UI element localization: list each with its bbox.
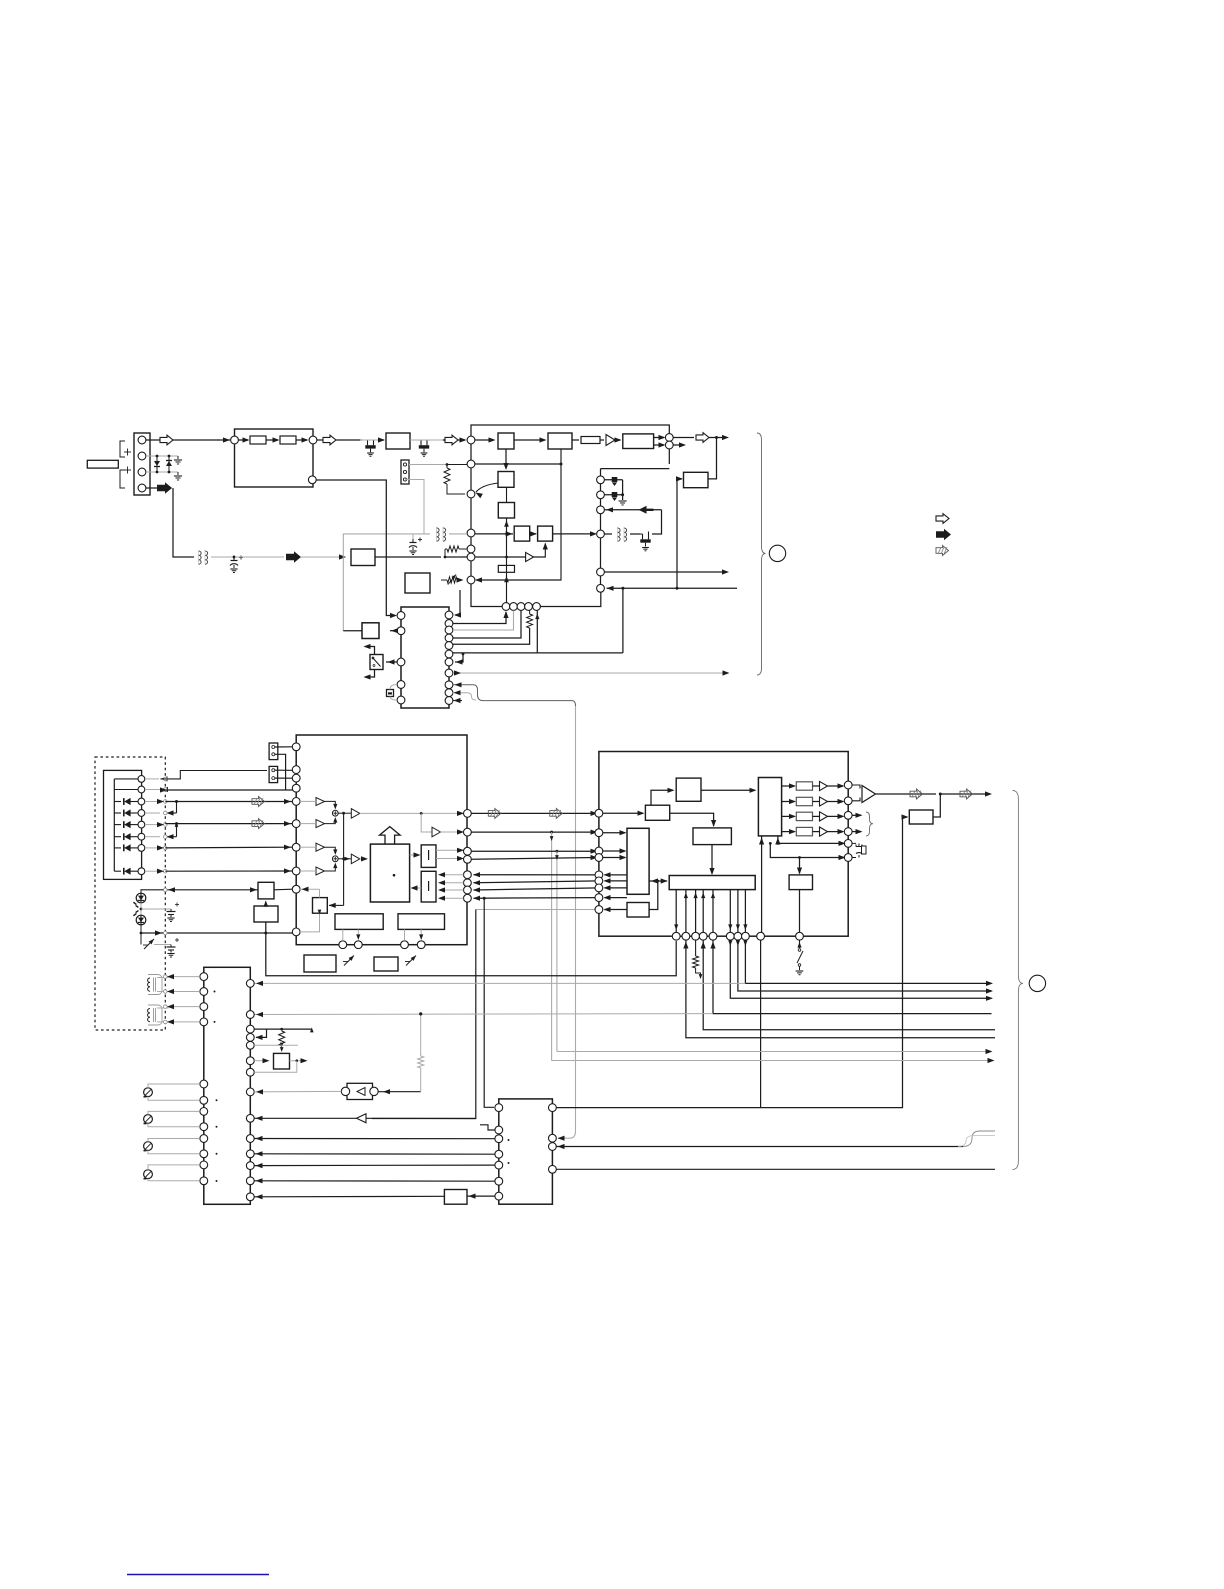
bracket ticks at CN101 [120, 441, 125, 457]
U301 bottom pin 685 [682, 932, 690, 940]
row 890 gap [474, 888, 600, 890]
node row606 e [533, 603, 541, 611]
wire ic1r 685 scurve [454, 685, 576, 706]
wire B16 right [670, 813, 714, 826]
legend hatched arrow [936, 546, 949, 556]
U301 left pin 813 [595, 809, 603, 817]
block B6 servo [351, 549, 375, 566]
block B7 [684, 472, 709, 487]
node row606 c [517, 603, 525, 611]
connector CN101 (optical block) [134, 433, 150, 495]
wire U105 out1 [654, 437, 664, 439]
wire BX2 to BX1 [265, 902, 267, 907]
row 851 gap [471, 850, 596, 852]
node bus 580 [467, 576, 475, 584]
IC101 left pin 662 [397, 658, 405, 666]
wire jog resistor [444, 549, 446, 557]
node row606 b [510, 603, 518, 611]
transistor Q101 [367, 440, 369, 445]
U301 left pin 874 [595, 871, 603, 879]
U201 left pin 801 [292, 798, 300, 806]
CN401 left pin 1138 [200, 1135, 208, 1143]
wire R103 to row494 [447, 484, 465, 494]
wire boxA [390, 630, 397, 632]
IC101 right pin 673 [445, 669, 453, 677]
res box out3 [796, 812, 812, 820]
B21 stub 686 [685, 890, 687, 933]
IC101 left pin 615 [397, 612, 405, 620]
buffer tri T2 [526, 552, 534, 561]
CN401 left pin 991 [200, 988, 208, 996]
wire row494 diode [604, 494, 622, 496]
mic M2 wires [148, 1111, 200, 1114]
IC101 right pin 693 [445, 689, 453, 697]
block B11 [335, 914, 383, 930]
CN401 right pin 983 [246, 980, 254, 988]
glyph F2 [428, 881, 430, 891]
U401 dots [508, 1139, 510, 1141]
U401 left pin 1130 [495, 1126, 503, 1134]
long wire x902 [552, 817, 902, 1108]
diode D102 [168, 456, 170, 472]
mech pin 813 [138, 810, 145, 817]
wire U101 to Q101 [336, 439, 362, 441]
IC101 left pin 700 [397, 696, 405, 704]
signal arrow mid [445, 435, 458, 445]
mic M1 wires [148, 1084, 200, 1088]
resistor R106 [527, 614, 533, 628]
U301 bottom pin 695 [692, 932, 700, 940]
signal arrow out [696, 433, 709, 443]
tall box B22 [758, 778, 781, 836]
block B23 [789, 875, 812, 890]
row 874 gap [474, 874, 600, 876]
wire F2 in1 [440, 874, 464, 876]
block B14 [374, 957, 398, 971]
U301 bottom pin 730 [726, 932, 734, 940]
CN401 left pin 1153 [200, 1150, 208, 1158]
hatch arrow gap2 [550, 808, 563, 818]
block C2 [538, 526, 553, 541]
variable res VR102 [140, 933, 142, 945]
cap C301 [852, 842, 856, 844]
tri after mixer1 [351, 809, 360, 819]
ground at D102 [177, 472, 179, 475]
block U101 EFM/PLL [235, 429, 314, 487]
resistor R301 [695, 940, 697, 956]
wire col x537 [536, 611, 538, 653]
wire drop x760 [760, 940, 762, 1108]
coil L101 [199, 551, 202, 555]
gray row 983 left [254, 982, 745, 984]
node out2 [665, 441, 673, 449]
signal arrow after U101 [323, 435, 336, 445]
U401 right pin 1107 [549, 1104, 557, 1112]
curve B3 to bus494 [476, 483, 498, 492]
U401 left pin 1138 [495, 1135, 503, 1143]
B21 stub 696 [695, 890, 697, 933]
wire to B10 [329, 904, 344, 906]
resistor R401 [279, 1031, 285, 1046]
block F2 [421, 871, 436, 902]
wire B16 up to B15 [651, 790, 673, 805]
wire tri2 to core [360, 858, 366, 860]
U401 left pin 1107 [495, 1104, 503, 1112]
U301 right pin 843 [844, 840, 852, 848]
block B19 [627, 903, 649, 918]
wire B10 bottom [300, 913, 320, 932]
row1029 cont [267, 1028, 312, 1030]
wire B6 right [375, 556, 441, 558]
wire 832 to B18 [603, 832, 625, 834]
variable resistor VR101 [447, 577, 457, 583]
U201 right pin 859 [464, 855, 472, 863]
gray curl to IC2 [558, 1131, 576, 1138]
CN401 left pin 1164 [200, 1161, 208, 1169]
block B12 [398, 914, 445, 930]
gray mixer1 branch [421, 813, 431, 832]
gray drop x577 [575, 706, 577, 1131]
wire LED junction [140, 903, 142, 916]
wire B9 left rail [343, 630, 362, 632]
coil T401 wires [157, 976, 200, 979]
block U103 [548, 433, 572, 449]
block BX2 [254, 906, 278, 922]
CN401 right pin 1118 [246, 1114, 254, 1122]
U201 left pin 823 [292, 820, 300, 828]
node col 494.8 [597, 491, 605, 499]
wire top loop [471, 425, 669, 444]
block B26 [444, 1190, 467, 1205]
wire row588 [607, 587, 738, 589]
switch SW101 box [370, 655, 383, 670]
wire B22 in2 [777, 836, 779, 844]
wire row509 right [610, 509, 662, 511]
wire B10 left [300, 888, 320, 890]
coil T401 [148, 975, 162, 995]
gray drop x557 [556, 851, 558, 1051]
wire ic1r 654 [453, 652, 623, 654]
block B3b [498, 503, 514, 519]
wire B23 bottom [799, 890, 801, 933]
row 890 wire [140, 889, 258, 891]
CN401 right pin 1138 [246, 1135, 254, 1143]
block BX1 [258, 882, 274, 899]
mic M3 wires [148, 1139, 200, 1142]
wire bus corner to column [471, 592, 601, 607]
mixer 813 [332, 810, 338, 816]
IC101 left pin 631 [397, 627, 405, 635]
wide box B21 [669, 876, 755, 890]
switch SW301 [799, 940, 801, 948]
node bus 557 [467, 553, 475, 561]
wire row572 [604, 571, 727, 573]
U301 bottom pin 737 [734, 932, 742, 940]
block B15 [676, 778, 701, 801]
tri to 832 [432, 827, 441, 837]
fan wire 713 [713, 940, 992, 1014]
wire pinb stub [342, 929, 344, 940]
U201 left pin 847 [292, 843, 300, 851]
wire B18 out4 [605, 897, 628, 899]
opto wire right [378, 1091, 421, 1093]
row1138 wire [254, 1138, 494, 1140]
wire 851 to B18 [603, 850, 625, 852]
variable arrow B13 [344, 956, 354, 966]
wire U102 to U103 [514, 439, 545, 441]
wire row509 corner [652, 510, 662, 534]
node out1 [665, 434, 673, 442]
amp bracket [852, 785, 860, 789]
U201 right pin 874 [464, 871, 472, 879]
tri out4 [820, 827, 828, 836]
wire CN202 pin1 [275, 769, 292, 771]
wire F2 in3 [440, 889, 464, 891]
mic M2 [144, 1115, 153, 1124]
wire col x600 top [600, 469, 602, 589]
U301 bottom pin 799 [796, 932, 804, 940]
CN401 left pin 1111 [200, 1108, 208, 1116]
wire C2 to col [553, 533, 596, 535]
wire B11 down [357, 929, 359, 938]
wire feedback down to B7 [708, 438, 717, 479]
U401 right pin 1146 [549, 1143, 557, 1151]
U201 block [296, 735, 467, 945]
opto O401 [347, 1083, 373, 1099]
U201 left pin 778 [292, 774, 300, 782]
wire crystal top [390, 685, 397, 690]
block B10 [313, 898, 328, 914]
mech pin 871 [138, 868, 145, 875]
wire row479 diode [604, 479, 622, 481]
LED D103 [136, 893, 146, 903]
node bus 440 [467, 436, 475, 444]
fan wire 745 [745, 940, 991, 983]
U301 bottom pin 713 [709, 932, 717, 940]
wire B22 in1 [761, 836, 763, 932]
feed circle 779 [145, 778, 159, 780]
IC101 right pin 654 [445, 650, 453, 658]
wire U101out to IC101 [316, 480, 395, 616]
CN401 left pin 1126 [200, 1123, 208, 1131]
CN401 right pin 1060 [246, 1057, 254, 1065]
resistor R107 box [498, 565, 514, 572]
U201 left pin 746 [292, 743, 300, 751]
wire loop bottom edge [475, 463, 562, 465]
IC101 right pin 685 [445, 681, 453, 689]
mech pin 789 [138, 786, 145, 793]
block B13 [304, 955, 336, 972]
CN401 right pin 1091 [246, 1088, 254, 1096]
wire L102 bus [449, 533, 467, 535]
CN401 left pin 1084 [200, 1080, 208, 1088]
connector CN201 [269, 743, 278, 760]
wire out to right [709, 437, 727, 439]
mic M3 [144, 1142, 153, 1151]
ground at D101 [177, 456, 179, 459]
coil T402 wires [157, 1007, 200, 1008]
wire B19 right [649, 881, 658, 910]
buffer tri 801 [316, 798, 325, 806]
row 1060 out [290, 1060, 307, 1062]
block C1 [514, 526, 530, 541]
U301 bottom pin 760 [757, 932, 765, 940]
hatched arrow row801 [252, 797, 265, 807]
U301 left pin 857 [595, 854, 603, 862]
B21 stub 703 [702, 890, 704, 933]
CN401 right pin 1045 [246, 1041, 254, 1049]
U201 right pin 890 [464, 886, 472, 894]
CN401 right pin 1072 [246, 1068, 254, 1076]
wire out1 right [673, 437, 694, 439]
row 801 wire [165, 801, 292, 803]
wire B19 left [605, 909, 628, 911]
mech diode row 871 [114, 870, 121, 872]
U301 left pin 880 [595, 877, 603, 885]
IC101 right pin 630 [445, 626, 453, 634]
U201 right pin 882 [464, 879, 472, 887]
IC101 block [401, 607, 449, 708]
wire 843 row [778, 842, 844, 844]
buffer tri 823 [316, 820, 325, 828]
crystal X101 [387, 690, 394, 697]
row1165 wire [254, 1164, 494, 1167]
wire B18 out3 [605, 887, 628, 889]
U201 right pin 813 [464, 810, 472, 818]
block B9 [362, 623, 379, 639]
wire supply to B6 [301, 556, 344, 558]
block B3 [498, 472, 514, 488]
node col 572 [597, 568, 605, 576]
row 832 gap [471, 831, 596, 833]
U201 right pin 851 [464, 847, 472, 855]
vertical mix line [343, 813, 345, 905]
IC101 right pin 662 [445, 658, 453, 666]
CN401 right pin 1014 [246, 1011, 254, 1019]
U301 right pin 857 [844, 854, 852, 862]
block B8 focus [405, 573, 430, 593]
res box out4 [796, 827, 812, 835]
row 790 wire [165, 789, 292, 791]
mech pin 824 [138, 821, 145, 828]
CN401 right pin 1196 [246, 1193, 254, 1201]
mic M1 [144, 1088, 153, 1097]
gray row 1014 left [254, 1013, 713, 1016]
U201 right pin 898 [464, 894, 472, 902]
wire SW101 bottom [365, 670, 375, 678]
tri after mixer2 [351, 854, 360, 864]
U401 left pin 1196 [495, 1192, 503, 1200]
mic M4 wires [148, 1165, 200, 1170]
wire ic1r 693 scurve [453, 693, 477, 700]
row 813 return [165, 812, 176, 814]
row1118 wire [254, 1117, 356, 1119]
blue footer line [127, 1574, 269, 1576]
CN401 left pin 1006 [200, 1003, 208, 1011]
U301 bottom pin 745 [742, 932, 750, 940]
node col 588 [597, 584, 605, 592]
wire F2 out [412, 887, 421, 889]
capacitor C103 [141, 908, 171, 910]
signal arrow (open) top-left [160, 435, 173, 445]
U301 left pin 909 [595, 906, 603, 914]
wire vert x677 [676, 479, 678, 588]
wire B20 down [711, 845, 713, 874]
node col 534 [597, 530, 605, 538]
IC101 right pin 645 [445, 642, 453, 650]
B21 stub 745 [744, 890, 746, 933]
resistor R105 [447, 546, 459, 552]
row 1060 in [254, 1060, 268, 1062]
fan wire 676 [266, 922, 676, 976]
node row606 a [502, 603, 510, 611]
CN401 right pin 1153 [246, 1150, 254, 1158]
row1169 wire [556, 1168, 995, 1170]
block U102 [498, 433, 514, 449]
feed circle 789 [145, 789, 162, 791]
CN401 block [204, 967, 251, 1204]
row 1072 gray [254, 1061, 297, 1073]
wire ic1r 630 [453, 611, 514, 631]
drop x475 [372, 910, 476, 1119]
U401 left pin 1154 [495, 1150, 503, 1158]
U301 left pin 851 [595, 847, 603, 855]
node bus 494 [467, 490, 475, 498]
hatched arrow row824 [252, 819, 265, 829]
U201 left pin 931 [292, 928, 300, 936]
row1196 wire [254, 1195, 444, 1198]
wire F1 out2 [436, 858, 463, 860]
B21 stub 713 [712, 890, 714, 933]
wire F1 out1 [436, 849, 463, 851]
wire bus to U102 [475, 439, 494, 441]
diode D103 [612, 477, 618, 482]
res box out1 [796, 782, 812, 790]
wire core to F1 [410, 854, 419, 856]
wire J102 pin3 down [405, 480, 424, 534]
mech wires left [114, 778, 138, 780]
connector J102 3pin [401, 460, 409, 484]
variable arrow B14 [406, 956, 416, 966]
U401 left pin 1165 [495, 1161, 503, 1169]
block B24 [909, 810, 933, 824]
amp triangle [862, 786, 876, 803]
legend open arrow [936, 514, 949, 524]
brace rows 815-831 [852, 814, 861, 816]
wire B18 out2 [605, 880, 628, 882]
row 933 wire [141, 932, 293, 934]
B21 stub 676 [675, 890, 677, 933]
CN401 left pin 1021 [200, 1018, 208, 1026]
block B20 [693, 828, 731, 845]
wire loop right edge [668, 442, 670, 450]
U301 bottom pin 703 [699, 932, 707, 940]
U401 pin1130 jog [480, 1125, 495, 1130]
node col 479.8 [597, 476, 605, 484]
IC101 left pin 684 [397, 681, 405, 689]
IC101 right pin 615 [445, 611, 453, 619]
wire 813 to B16 [603, 812, 643, 814]
resistor R103 vertical [444, 468, 450, 484]
wire ic1r 700 [453, 700, 463, 702]
big up arrow [380, 827, 401, 845]
diode D104 [612, 492, 618, 497]
wire F2 in2 [440, 882, 464, 884]
mech diode row 801 [114, 801, 121, 803]
drop x484 [484, 898, 494, 1107]
tri out2 [820, 797, 828, 806]
CN401 right pin 1165 [246, 1162, 254, 1170]
